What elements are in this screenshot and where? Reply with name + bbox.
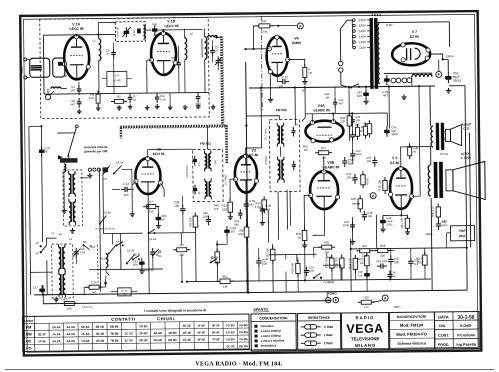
svg-text:½ Watt: ½ Watt: [324, 325, 334, 329]
svg-text:10K: 10K: [355, 123, 360, 126]
coil L2: [98, 39, 100, 61]
svg-text:1A-2A: 1A-2A: [52, 332, 61, 336]
capacitor CRT box: [450, 226, 474, 241]
svg-text:10K: 10K: [214, 207, 219, 211]
tube V4A: [305, 119, 343, 142]
svg-text:2 Watt: 2 Watt: [324, 341, 333, 345]
audio bus: [187, 279, 431, 282]
svg-text:Schema elettrico: Schema elettrico: [397, 341, 427, 345]
svg-text:A: A: [384, 296, 387, 300]
svg-text:C36 700: C36 700: [334, 257, 338, 268]
svg-text:C43 100K: C43 100K: [376, 259, 388, 263]
svg-text:R37: R37: [262, 19, 268, 23]
svg-text:V4B: V4B: [327, 161, 334, 165]
svg-text:R2: R2: [117, 95, 121, 99]
resistor R7 10K: [143, 204, 159, 208]
svg-text:ECH 81: ECH 81: [153, 152, 165, 156]
svg-text:EZ 80: EZ 80: [410, 35, 419, 39]
wire h between: [163, 268, 187, 270]
svg-text:10,7 MHz: 10,7 MHz: [263, 128, 267, 140]
ground V5 cath: [380, 227, 385, 232]
svg-text:100: 100: [262, 262, 267, 266]
wire am b+ 1: [172, 148, 196, 150]
antenna pivot: [68, 163, 70, 168]
svg-text:FM 501: FM 501: [200, 142, 211, 146]
svg-text:50µF: 50µF: [459, 229, 466, 233]
switch box 20 30: [118, 288, 132, 296]
svg-text:4A-5A: 4A-5A: [67, 332, 76, 336]
wire B+ to V4A: [301, 87, 305, 121]
svg-text:125V: 125V: [359, 40, 366, 44]
svg-text:6-30: 6-30: [80, 250, 86, 254]
svg-text:1A-2A: 1A-2A: [116, 160, 124, 164]
svg-text:1B-2B: 1B-2B: [96, 339, 104, 343]
capacitor C47 50uF: [380, 216, 385, 226]
resistor R3 3.4K: [96, 91, 100, 107]
wire af drops: [366, 249, 368, 255]
svg-text:50: 50: [161, 217, 165, 221]
svg-text:TRU/11: TRU/11: [439, 152, 448, 156]
svg-text:DATA: DATA: [438, 314, 449, 319]
svg-text:10,7 MΩ2: 10,7 MΩ2: [224, 174, 227, 186]
vega logo box: [341, 313, 388, 351]
node A mid: [370, 193, 376, 199]
ground c25: [139, 268, 144, 273]
osc padder coil: [106, 254, 108, 268]
svg-text:7A-8A: 7A-8A: [81, 339, 90, 343]
resistor R27 2.2K: [356, 249, 373, 253]
svg-text:FO: FO: [26, 346, 31, 350]
svg-text:RADIORICEVITORI: RADIORICEVITORI: [397, 315, 427, 319]
wire v3 b+: [260, 88, 263, 148]
osc transformer can: [58, 244, 65, 272]
svg-text:16-2A 2A: 16-2A 2A: [144, 269, 154, 272]
svg-text:R20: R20: [351, 197, 357, 201]
svg-text:470KΩ2: 470KΩ2: [264, 155, 268, 165]
wire y270 left: [30, 271, 51, 273]
svg-text:27: 27: [215, 49, 219, 53]
capacitor C7 1n: [128, 93, 133, 103]
svg-text:3,4K: 3,4K: [88, 96, 94, 100]
svg-text:C180 1000: C180 1000: [186, 165, 189, 178]
svg-text:SPENTO: SPENTO: [253, 308, 268, 312]
wire v4a misc: [313, 141, 318, 153]
wire FM box left vertical: [42, 35, 45, 94]
tuning gang box C4: [115, 22, 145, 42]
legend condensatori box: [251, 314, 296, 351]
wire fm502 feed: [286, 190, 288, 230]
svg-text:R31 170: R31 170: [400, 217, 404, 228]
svg-text:C4T: C4T: [442, 219, 448, 223]
svg-text:0,16: 0,16: [160, 97, 166, 101]
svg-text:2A-3A: 2A-3A: [52, 339, 61, 343]
output transformer upper core: [436, 123, 439, 150]
svg-text:1F-2F: 1F-2F: [38, 339, 46, 343]
svg-text:1D-2D: 1D-2D: [139, 331, 147, 335]
svg-text:1G-2G: 1G-2G: [226, 337, 235, 341]
capacitor C28 10K: [180, 205, 185, 215]
svg-text:5000: 5000: [343, 223, 350, 227]
svg-text:2A-3A: 2A-3A: [149, 237, 157, 241]
tube V1B: [149, 31, 178, 75]
wire mid h2: [163, 233, 187, 261]
svg-text:8G-9G: 8G-9G: [239, 344, 248, 348]
svg-text:25VL: 25VL: [386, 223, 393, 227]
wire vol down: [351, 217, 353, 239]
svg-text:1B-2B: 1B-2B: [96, 332, 104, 336]
svg-text:DIS.: DIS.: [439, 324, 446, 328]
trimmer row: [88, 168, 91, 171]
resistor R4 2.7K: [86, 285, 103, 289]
svg-text:150: 150: [417, 260, 422, 264]
svg-text:1M: 1M: [308, 71, 312, 75]
switch am 3: [116, 242, 124, 247]
svg-text:10K: 10K: [203, 214, 208, 218]
svg-text:160V: 160V: [359, 29, 366, 33]
node A bottom: [382, 295, 388, 301]
wire y114 ext: [305, 112, 352, 115]
svg-text:1F-2F: 1F-2F: [197, 324, 205, 328]
wire FM top bus: [43, 33, 115, 36]
ground am: [62, 208, 67, 213]
output transformer lower core: [434, 162, 438, 198]
section divider dash-dot: [261, 16, 262, 112]
svg-text:2E-3F: 2E-3F: [38, 332, 46, 336]
wire h230 left: [104, 232, 143, 234]
capacitor C31b 10K: [304, 266, 309, 276]
osc coil wires: [147, 194, 149, 233]
svg-text:1D-2D: 1D-2D: [139, 324, 147, 328]
svg-text:½ECC 85: ½ECC 85: [164, 24, 179, 28]
svg-text:300Ω: 300Ω: [20, 67, 24, 74]
svg-text:50K: 50K: [133, 263, 138, 267]
svg-text:girevole per OM: girevole per OM: [84, 149, 108, 153]
svg-text:4D-5D: 4D-5D: [154, 331, 162, 335]
pilot lamps: [391, 78, 396, 83]
wire R37 left: [253, 26, 258, 49]
big speaker: [446, 170, 453, 191]
wires osc: [61, 295, 63, 298]
resistor R45 22K: [347, 112, 352, 129]
wire am sw: [89, 268, 143, 271]
wire V5 screen: [410, 86, 420, 196]
svg-text:500: 500: [213, 159, 217, 164]
svg-text:50K: 50K: [278, 84, 283, 88]
svg-text:0,1µ: 0,1µ: [358, 273, 364, 277]
switch bank arm 3: [100, 216, 107, 224]
svg-text:R33 10K: R33 10K: [324, 257, 328, 268]
FM502 transformer 2: [278, 157, 285, 183]
svg-text:OM: OM: [26, 332, 32, 336]
antenna input transformer: [30, 58, 50, 77]
svg-text:a mica e stirofles: a mica e stirofles: [261, 339, 285, 343]
svg-text:FONO: FONO: [328, 291, 337, 295]
svg-text:4K7: 4K7: [70, 102, 75, 106]
tube V4B: [308, 169, 340, 209]
capacitor C5 27: [111, 49, 116, 59]
svg-text:1 Watt: 1 Watt: [324, 333, 333, 337]
ground fm: [183, 105, 188, 110]
svg-text:A: A: [372, 194, 375, 198]
wire V7 output: [430, 54, 443, 60]
svg-text:220V: 220V: [359, 24, 366, 28]
wire V6 right pin: [288, 59, 305, 66]
resistor R37 470K: [255, 24, 273, 28]
wire V4B anode: [338, 197, 345, 204]
svg-text:22K: 22K: [341, 119, 346, 123]
ground fm: [77, 109, 82, 114]
coil L4: [184, 38, 186, 60]
wire C52 col: [447, 59, 449, 73]
wire right spk joins: [465, 132, 469, 134]
svg-text:R-5 10K 1A-2A 2A: R-5 10K 1A-2A 2A: [95, 227, 115, 230]
svg-text:R28: R28: [380, 244, 386, 248]
capacitor C54 10K: [363, 89, 368, 99]
svg-text:110V: 110V: [359, 46, 366, 50]
capacitor C24 50: [156, 213, 161, 223]
capacitor C46 5000: [350, 221, 355, 231]
svg-text:8F-9F: 8F-9F: [212, 330, 220, 334]
svg-text:V6: V6: [294, 36, 298, 40]
wire box to V1B: [145, 29, 151, 31]
capacitor C27 100: [256, 257, 268, 267]
wire h 230: [104, 232, 143, 234]
switch arms am: [103, 166, 110, 175]
resistor R36 470K: [215, 248, 220, 266]
svg-text:104: 104: [222, 207, 227, 211]
wire lower mid 1: [194, 228, 197, 282]
svg-text:10K: 10K: [174, 204, 179, 208]
electrolytic C45: [384, 126, 389, 136]
resistor R30 470: [436, 203, 441, 220]
ground fm: [145, 105, 150, 110]
switch bank arm 1: [109, 244, 117, 253]
svg-text:4F-5F: 4F-5F: [212, 323, 220, 327]
wire right second vertical: [469, 133, 470, 248]
coil L6 osc: [204, 36, 206, 59]
resistor R17 120: [315, 151, 332, 155]
capacitor C12 100: [196, 93, 201, 103]
svg-text:1K: 1K: [298, 236, 302, 240]
svg-text:5000: 5000: [356, 152, 363, 156]
svg-text:10K: 10K: [357, 94, 362, 98]
capacitor C52 50uF: [445, 73, 451, 84]
capacitor C42 0.1: [408, 257, 420, 267]
wire out trafo bottom: [431, 198, 432, 290]
svg-text:2K: 2K: [44, 150, 48, 154]
svg-text:10K: 10K: [149, 209, 154, 213]
svg-text:7V 8B/9F: 7V 8B/9F: [323, 280, 335, 284]
capacitor C30 50K: [342, 157, 354, 167]
wire V2 top: [147, 150, 149, 158]
wire R37 to node A: [270, 24, 296, 26]
capacitor C41 100: [350, 116, 355, 126]
resistor R18 470K: [359, 120, 372, 137]
capacitor C49 5000: [436, 220, 441, 230]
legend resistenze box: [297, 313, 340, 350]
wire V7 plate: [384, 44, 403, 46]
svg-text:R26 500: R26 500: [290, 263, 294, 274]
wire big spk: [443, 166, 446, 170]
svg-text:200: 200: [124, 193, 129, 197]
tube V6: [266, 35, 290, 76]
svg-text:4K7: 4K7: [383, 93, 389, 97]
capacitor C29 6K7: [244, 200, 249, 210]
wire V5 cathode: [383, 209, 402, 218]
svg-text:27: 27: [106, 52, 110, 56]
svg-text:FM 502: FM 502: [276, 108, 287, 112]
svg-text:V 1B: V 1B: [167, 19, 175, 23]
svg-text:1B-2B: 1B-2B: [127, 248, 135, 252]
svg-text:2A-3A: 2A-3A: [52, 325, 61, 329]
svg-text:10- 20: 10- 20: [121, 291, 128, 293]
svg-text:Ceramica: Ceramica: [261, 324, 274, 328]
ground C52: [446, 88, 451, 93]
svg-text:A.Galli: A.Galli: [460, 324, 472, 328]
tube V3: [233, 154, 259, 193]
svg-text:2E-3E: 2E-3E: [183, 331, 191, 335]
svg-text:240V: 240V: [359, 18, 366, 22]
wire grid long: [294, 88, 296, 126]
svg-text:1C: 1C: [35, 241, 38, 245]
svg-text:7B-8B: 7B-8B: [100, 257, 108, 261]
resistor R2 104: [111, 99, 127, 103]
ground fm: [211, 104, 216, 109]
OM ferrite rod: [60, 158, 77, 162]
wire V3 anode up: [246, 148, 262, 156]
capacitor C31: [333, 98, 338, 108]
resistor R33 10K: [330, 255, 335, 272]
svg-text:10K: 10K: [309, 269, 314, 273]
svg-text:C17: C17: [33, 285, 39, 289]
svg-text:1C-2C: 1C-2C: [125, 331, 134, 335]
svg-text:TELEVISIONE: TELEVISIONE: [351, 336, 380, 341]
svg-text:R29: R29: [364, 295, 370, 299]
svg-text:C 13: C 13: [463, 126, 470, 130]
svg-text:C10: C10: [80, 247, 85, 251]
resistor R26 500: [296, 260, 301, 277]
wire sw bank: [120, 233, 122, 269]
wire to V2 grid: [130, 188, 134, 190]
svg-text:1E-2E: 1E-2E: [183, 324, 191, 328]
svg-text:5F-6F: 5F-6F: [197, 331, 205, 335]
switch V2 osc: [147, 229, 155, 234]
svg-text:10K: 10K: [366, 159, 371, 163]
capacitor C30 10K: [206, 216, 211, 226]
resistor C48 5K: [408, 143, 412, 159]
svg-text:300V: 300V: [391, 132, 398, 136]
wire tone net: [272, 261, 274, 292]
svg-text:7A-8A: 7A-8A: [81, 332, 90, 336]
tube V2: [134, 156, 163, 194]
wire af vert 376: [375, 215, 377, 249]
svg-text:470K: 470K: [365, 178, 369, 185]
svg-text:½EABC 80: ½EABC 80: [313, 108, 330, 112]
rotating antenna arm: [75, 125, 78, 128]
wire fm501 up: [206, 126, 208, 149]
svg-text:2C-3C: 2C-3C: [125, 338, 134, 342]
svg-text:P.Cosfone: P.Cosfone: [457, 333, 475, 337]
svg-text:V3: V3: [251, 149, 255, 153]
ground rectifier: [401, 94, 406, 99]
pot R29: [358, 300, 375, 304]
svg-text:7B-8B: 7B-8B: [110, 332, 118, 336]
svg-text:R-5: R-5: [63, 298, 68, 302]
wire left edge am: [40, 126, 42, 148]
FM502 dashed can: [269, 119, 300, 191]
wire fm502 drops: [277, 192, 280, 240]
ground fm: [117, 105, 122, 110]
capacitor C34 680: [238, 209, 243, 219]
svg-text:I contatti sono disegnati: I contatti sono disegnati in posizione d…: [144, 308, 206, 313]
svg-text:Mod. FM104-FO: Mod. FM104-FO: [396, 331, 427, 336]
svg-text:240V~: 240V~: [446, 54, 455, 58]
svg-text:4F: 4F: [393, 274, 396, 278]
svg-text:7F-8F: 7F-8F: [212, 337, 220, 341]
svg-text:R30 470: R30 470: [431, 206, 435, 217]
wire v4b to tone: [312, 209, 324, 235]
svg-text:2C-3C: 2C-3C: [226, 344, 235, 348]
bottom ground bus: [34, 290, 467, 295]
ground V6 bottom: [268, 97, 273, 102]
wire c27: [258, 266, 260, 281]
svg-text:47K: 47K: [238, 232, 243, 236]
tube V7: [392, 42, 430, 65]
svg-text:C 13: C 13: [123, 182, 129, 186]
filter choke: [412, 74, 432, 77]
capacitor C39 4K7: [260, 205, 265, 215]
gang link dashed: [97, 245, 99, 283]
svg-text:8D-9D: 8D-9D: [168, 338, 176, 342]
contact box C4: [107, 71, 127, 86]
svg-text:R27: R27: [362, 244, 368, 248]
svg-text:4A-5A: 4A-5A: [67, 339, 76, 343]
svg-text:a carta 1500Vp: a carta 1500Vp: [261, 334, 282, 338]
svg-text:27: 27: [172, 59, 176, 63]
svg-text:½ECC 85: ½ECC 85: [69, 27, 84, 31]
svg-text:CONDENSATORI: CONDENSATORI: [259, 316, 287, 320]
svg-text:6,3V: 6,3V: [386, 23, 392, 27]
svg-text:22K: 22K: [363, 122, 368, 125]
wire V4B top: [323, 159, 325, 171]
wire 247 joins: [245, 124, 247, 126]
resistor R41 1K: [296, 227, 307, 244]
svg-text:470: 470: [197, 162, 201, 167]
AM wires 1: [80, 177, 88, 179]
svg-text:140: 140: [70, 88, 75, 92]
svg-text:1B-2B: 1B-2B: [211, 255, 219, 259]
svg-text:CONTATTI: CONTATTI: [111, 317, 136, 322]
trimmer C10b: [215, 56, 222, 66]
wire V6 bottom pin: [269, 74, 271, 97]
ground V4B cath: [302, 242, 307, 247]
wire fono up: [326, 292, 328, 297]
svg-text:235V~: 235V~: [425, 232, 434, 236]
svg-text:6K7: 6K7: [249, 203, 254, 207]
svg-text:10K: 10K: [394, 260, 399, 264]
resistor R13: [221, 199, 232, 216]
svg-text:4A-5A: 4A-5A: [116, 239, 124, 243]
wire x390 v: [388, 86, 390, 128]
output transformer lower coil: [428, 165, 431, 196]
wire tone cluster: [285, 272, 287, 292]
node F: [436, 71, 442, 77]
svg-text:(4-18): (4-18): [133, 29, 136, 36]
svg-text:PROG.: PROG.: [438, 343, 450, 347]
power transformer core: [370, 18, 374, 89]
svg-text:4K7: 4K7: [42, 293, 47, 297]
wire am col: [102, 216, 104, 234]
